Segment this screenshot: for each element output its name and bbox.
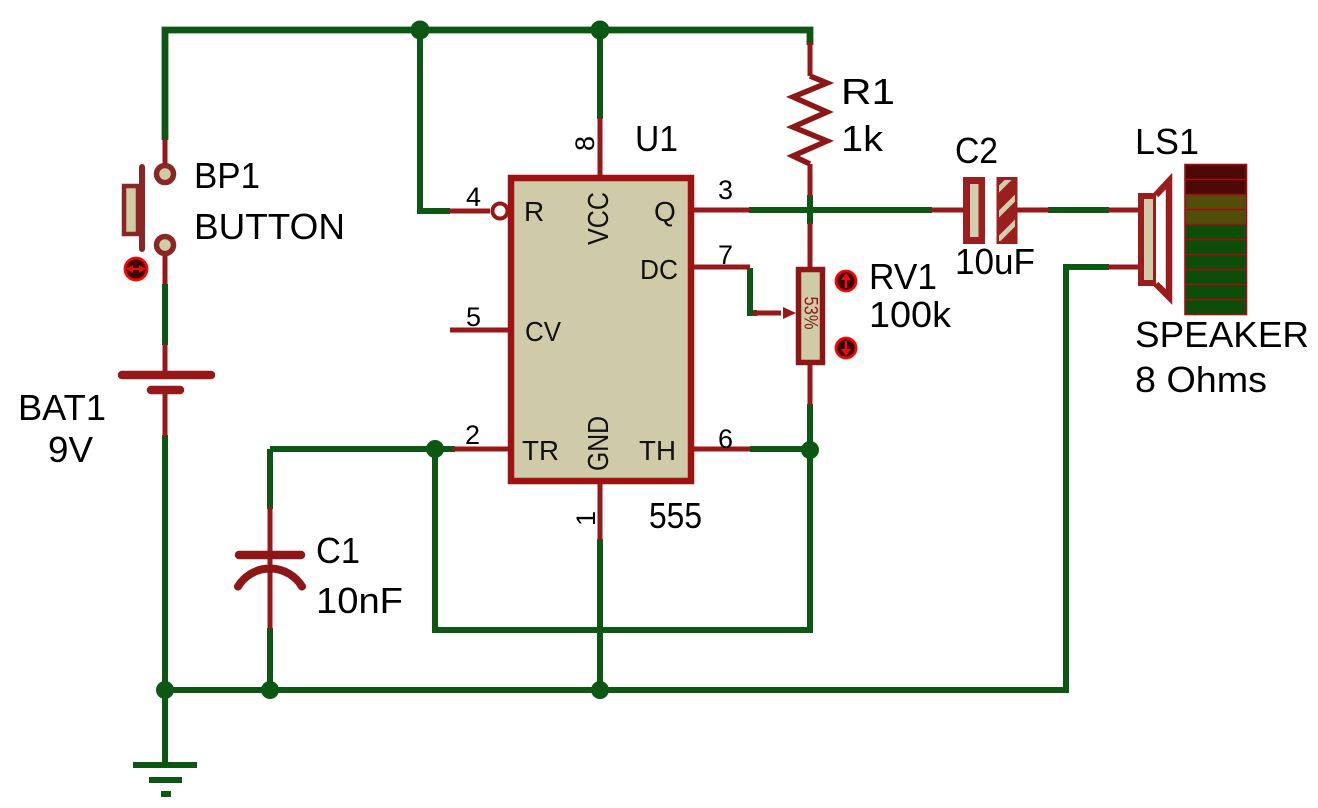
svg-text:R: R xyxy=(524,196,544,227)
svg-text:555: 555 xyxy=(649,495,702,536)
svg-text:U1: U1 xyxy=(635,118,678,159)
svg-text:TR: TR xyxy=(522,435,559,466)
svg-text:53%: 53% xyxy=(800,297,821,330)
svg-text:DC: DC xyxy=(640,254,678,285)
svg-text:BAT1: BAT1 xyxy=(18,387,106,428)
svg-text:3: 3 xyxy=(718,175,733,205)
svg-text:8: 8 xyxy=(570,136,600,151)
svg-text:8 Ohms: 8 Ohms xyxy=(1135,359,1267,400)
svg-text:GND: GND xyxy=(583,416,615,471)
svg-text:6: 6 xyxy=(718,424,733,454)
svg-text:SPEAKER: SPEAKER xyxy=(1135,314,1309,355)
svg-text:Q: Q xyxy=(654,196,676,227)
svg-text:5: 5 xyxy=(466,302,481,332)
svg-text:10nF: 10nF xyxy=(316,580,403,621)
svg-text:RV1: RV1 xyxy=(869,256,937,297)
svg-text:R1: R1 xyxy=(841,71,895,112)
svg-text:2: 2 xyxy=(465,420,480,450)
svg-text:100k: 100k xyxy=(869,294,952,335)
svg-text:7: 7 xyxy=(718,240,733,270)
svg-text:10uF: 10uF xyxy=(955,241,1035,282)
svg-text:1: 1 xyxy=(571,511,601,526)
svg-text:4: 4 xyxy=(466,182,481,212)
svg-text:C1: C1 xyxy=(316,530,360,571)
svg-text:TH: TH xyxy=(639,435,676,466)
svg-text:1k: 1k xyxy=(841,118,884,159)
svg-text:C2: C2 xyxy=(955,130,998,171)
svg-text:CV: CV xyxy=(525,316,561,347)
svg-text:BP1: BP1 xyxy=(194,155,260,196)
svg-text:9V: 9V xyxy=(48,429,93,470)
svg-text:VCC: VCC xyxy=(583,192,615,245)
svg-text:BUTTON: BUTTON xyxy=(194,206,345,247)
svg-text:LS1: LS1 xyxy=(1135,121,1199,162)
